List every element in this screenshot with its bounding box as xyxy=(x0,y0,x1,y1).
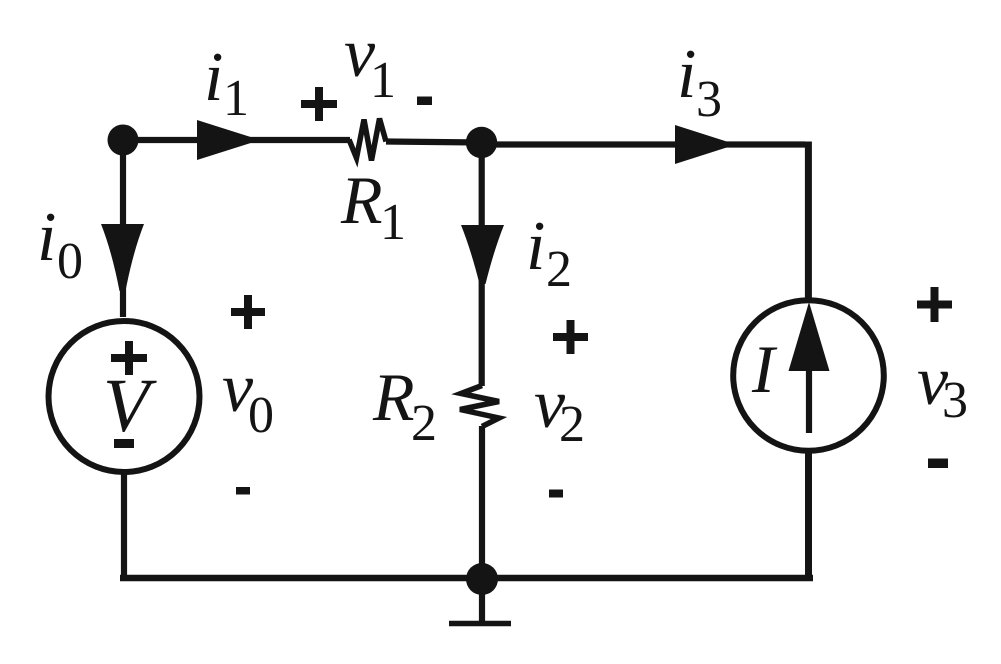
svg-text:i: i xyxy=(204,39,223,116)
wire bottom xyxy=(120,575,813,582)
ground bar xyxy=(449,621,511,627)
svg-text:V: V xyxy=(103,364,157,448)
svg-text:I: I xyxy=(751,331,778,407)
svg-text:0: 0 xyxy=(248,387,274,444)
svg-text:2: 2 xyxy=(546,241,572,298)
svg-text:1: 1 xyxy=(370,52,396,109)
svg-text:3: 3 xyxy=(942,372,968,429)
node A (top-left junction) xyxy=(108,125,139,156)
svg-text:i: i xyxy=(37,199,56,276)
plus sign inside V source xyxy=(111,341,147,375)
arrow i0 (down) xyxy=(101,224,144,291)
svg-text:2: 2 xyxy=(559,396,585,453)
current source arrow head xyxy=(789,302,830,371)
svg-text:i: i xyxy=(677,36,696,113)
wire right vertical upper xyxy=(805,142,812,301)
current source arrow tail xyxy=(806,368,812,433)
wire R2 to node3 xyxy=(479,426,485,579)
plus sign of v3 xyxy=(917,287,952,322)
minus sign of v3 xyxy=(928,459,948,469)
wire R1 to node2 xyxy=(386,142,482,143)
plus sign of v2 xyxy=(553,320,588,354)
svg-text:i: i xyxy=(526,208,545,285)
current source U-I circle xyxy=(733,300,884,451)
resistor R1 xyxy=(349,119,386,161)
svg-text:R: R xyxy=(372,359,415,435)
node B (top-middle junction) xyxy=(466,127,497,158)
svg-text:3: 3 xyxy=(696,71,722,128)
svg-text:2: 2 xyxy=(411,395,437,452)
minus sign inside V source xyxy=(114,439,134,448)
resistor R2 xyxy=(460,386,499,427)
plus sign of v1 xyxy=(301,87,337,121)
svg-text:1: 1 xyxy=(223,70,249,127)
wire top-left: node1 to R1 xyxy=(123,137,350,143)
node C (bottom ground junction) xyxy=(466,563,498,595)
minus sign of v1 xyxy=(417,97,432,106)
arrow i2 (down) xyxy=(461,225,504,284)
wire left vertical lower xyxy=(121,473,127,581)
voltage source V circle xyxy=(49,321,200,472)
svg-text:0: 0 xyxy=(57,233,83,290)
svg-text:1: 1 xyxy=(380,194,406,251)
wire node2 to top-right corner xyxy=(482,141,806,147)
arrow i3 xyxy=(675,125,736,164)
arrow i1 xyxy=(197,120,260,160)
minus sign of v2 xyxy=(549,490,563,498)
svg-text:R: R xyxy=(340,162,383,238)
wire left vertical upper xyxy=(120,140,126,317)
plus sign of v0 xyxy=(231,295,265,329)
wire right vertical lower xyxy=(805,451,812,578)
minus sign of v0 xyxy=(236,487,250,495)
ground stub xyxy=(479,579,485,623)
wire node2 down to R2 xyxy=(479,143,485,387)
